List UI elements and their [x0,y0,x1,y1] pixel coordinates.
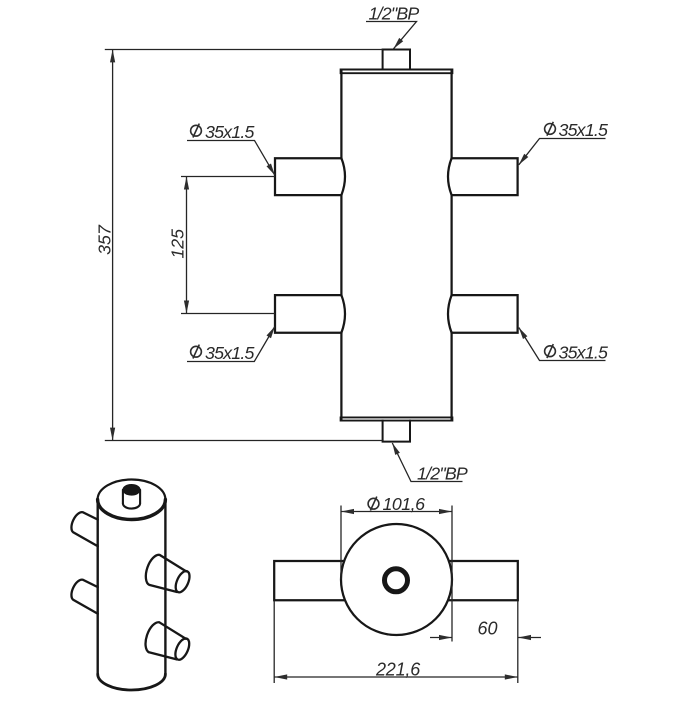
leader lower-left 35x1.5 [187,327,275,362]
3D top cap ellipse [98,480,166,520]
arrow leader UR [519,154,529,165]
right port tube [448,561,518,600]
upper-right port 35x1.5 [452,158,518,195]
svg-text:1/2"ВР: 1/2"ВР [369,4,420,24]
diameter symbol UL [191,124,202,138]
svg-text:35x1.5: 35x1.5 [205,122,254,142]
arrow dim125 down [184,301,189,314]
3D upper-right stub [146,555,193,595]
dim 357 top extension [105,49,383,51]
svg-text:1/2"ВР: 1/2"ВР [417,464,468,484]
upper-right port saddle arc [448,158,452,195]
dim 357 bottom extension [105,440,383,442]
leader upper-left 35x1.5 [187,141,275,176]
arrow 221.6 left [274,674,287,679]
arrow 60 right [518,635,531,640]
arrow leader top BP [394,38,404,49]
vessel shell left edge [340,71,342,420]
dim 357 line [112,49,114,440]
3D top stub bottom arc [123,503,140,508]
dim 60 / 221.6 right extension [517,601,519,683]
vessel top cap seam [341,70,453,74]
vessel shell right edge [450,71,452,420]
diameter symbol UR [545,122,556,136]
arrow 60 left [439,635,452,640]
3D upper-left stub [71,512,97,546]
arrow leader LR [519,328,528,340]
dim 101.6 extensions [341,506,452,642]
dim 221.6 line [274,676,518,678]
svg-text:125: 125 [168,229,188,259]
top nozzle 1/2"BP [383,50,410,70]
center nozzle ring [385,569,408,592]
lower-right port saddle arc [448,295,452,333]
dim 101.6 line [341,511,452,513]
svg-text:101,6: 101,6 [383,494,426,514]
lower-right port 35x1.5 [452,295,518,333]
svg-text:60: 60 [478,619,498,639]
diameter symbol 101.6 [368,497,379,511]
leader upper-right 35x1.5 [519,139,606,165]
arrow dim125 up [184,177,189,190]
svg-text:221,6: 221,6 [375,660,421,680]
3D lower-left stub [71,580,97,614]
3D shell left edge [96,500,98,674]
left port tube [274,561,345,600]
svg-text:357: 357 [95,224,115,255]
diameter symbol LL [191,345,202,359]
arrow 101.6 right [439,509,452,514]
arrow 101.6 left [341,509,354,514]
dim 125 bottom extension [181,313,275,315]
leader bottom 1/2"BP [392,443,462,482]
arrow leader LL [267,327,275,339]
svg-text:35x1.5: 35x1.5 [559,342,608,362]
diameter symbol LR [545,344,556,358]
upper-left port 35x1.5 [275,158,341,195]
dim 221.6 left extension [273,601,275,683]
lower-left port saddle arc [341,295,345,333]
3D shell right edge [164,500,166,674]
bottom nozzle 1/2"BP [383,421,410,442]
lower-left port 35x1.5 [275,295,341,333]
dim 125 line [186,177,188,314]
svg-text:35x1.5: 35x1.5 [205,343,254,363]
upper-left port saddle arc [341,158,345,195]
3D lower-right stub [146,622,193,662]
dim 125 top extension [181,176,275,178]
arrow leader bottom BP [392,443,400,455]
body circle [341,524,452,635]
leader top 1/2"BP [366,22,417,49]
dim 60 line segments [430,637,541,639]
vessel bottom cap seam [341,417,453,420]
arrow 221.6 right [505,674,518,679]
3D top stub bore [123,485,140,496]
arrow dim357 up [110,49,115,62]
3D top stub sides [123,490,140,504]
arrow leader UL [267,164,275,176]
3D top cap rim arc [98,500,166,520]
top view dimensions [274,506,541,684]
svg-text:35x1.5: 35x1.5 [559,120,608,140]
arrow dim357 down [110,428,115,441]
3D shell bottom arc [98,674,166,690]
leader lower-right 35x1.5 [519,328,606,361]
